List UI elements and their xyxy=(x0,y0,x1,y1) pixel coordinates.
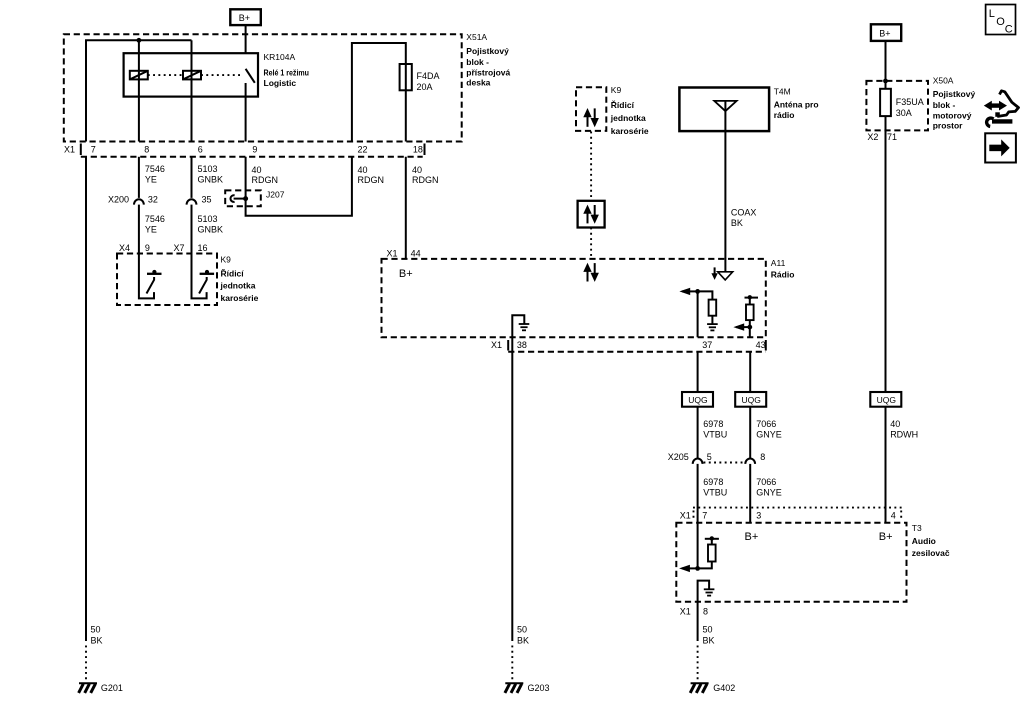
svg-text:50: 50 xyxy=(91,625,101,635)
svg-text:UQG: UQG xyxy=(742,395,761,405)
harness code UQG box 2 xyxy=(735,392,766,407)
svg-text:50: 50 xyxy=(703,625,713,635)
wire pin38 to ground G203 xyxy=(511,337,513,641)
antenna input down arrow xyxy=(711,267,717,280)
svg-text:8: 8 xyxy=(703,607,708,617)
svg-text:BK: BK xyxy=(731,218,743,228)
svg-text:přístrojová: přístrojová xyxy=(466,68,510,78)
svg-text:RDGN: RDGN xyxy=(358,175,385,185)
antenna T4M xyxy=(679,87,818,132)
wire 6978 VTBU lower to T3 pin7 xyxy=(697,464,699,569)
svg-text:karosérie: karosérie xyxy=(221,293,259,303)
svg-text:44: 44 xyxy=(411,248,421,258)
svg-text:8: 8 xyxy=(144,145,149,155)
fuse block X51A box xyxy=(64,32,511,141)
svg-text:T3: T3 xyxy=(912,523,922,533)
fuse F4DA 20A xyxy=(400,64,440,92)
svg-text:F4DA: F4DA xyxy=(417,71,440,81)
BCM K9 box lower-left xyxy=(117,254,259,306)
serial data arrows in K9 xyxy=(583,108,599,127)
svg-text:7066: 7066 xyxy=(756,477,776,487)
svg-text:X1: X1 xyxy=(680,607,691,617)
wire 40 RDWH to T3 pin4 xyxy=(885,407,887,524)
LOC legend box xyxy=(986,5,1016,36)
hand navigation icon xyxy=(984,91,1019,127)
fuse block X50A box xyxy=(866,76,975,131)
wire pin37 to UQG xyxy=(697,352,699,459)
connector X200 pin 35 xyxy=(187,194,212,204)
svg-text:A11: A11 xyxy=(771,258,786,268)
svg-text:X2: X2 xyxy=(867,132,878,142)
svg-text:35: 35 xyxy=(202,194,212,204)
svg-text:jednotka: jednotka xyxy=(220,281,256,291)
svg-text:UQG: UQG xyxy=(688,395,707,405)
svg-text:Řídicí: Řídicí xyxy=(611,99,635,110)
svg-text:37: 37 xyxy=(702,340,712,350)
serial data arrows in radio xyxy=(583,263,599,282)
arrow direction box xyxy=(985,133,1016,162)
svg-text:7: 7 xyxy=(702,511,707,521)
node junction coil1 top xyxy=(137,38,142,43)
svg-text:prostor: prostor xyxy=(933,121,963,131)
svg-text:GNYE: GNYE xyxy=(756,487,782,497)
svg-text:B+: B+ xyxy=(879,531,893,543)
svg-text:Pojistkový: Pojistkový xyxy=(466,46,509,56)
svg-text:X1: X1 xyxy=(491,340,502,350)
K9 switch 1 xyxy=(139,254,162,299)
svg-text:5103: 5103 xyxy=(198,214,218,224)
radio internal pin 43: arrow and resistor to termination xyxy=(733,295,758,337)
svg-text:5103: 5103 xyxy=(198,164,218,174)
svg-text:GNBK: GNBK xyxy=(198,175,224,185)
connector X200 pin 32 xyxy=(108,194,158,204)
svg-text:7546: 7546 xyxy=(145,164,165,174)
node B+ feed (instrument panel) xyxy=(230,9,260,53)
svg-text:40: 40 xyxy=(252,165,262,175)
svg-text:6978: 6978 xyxy=(703,419,723,429)
svg-text:VTBU: VTBU xyxy=(703,487,727,497)
svg-text:jednotka: jednotka xyxy=(610,113,646,123)
svg-text:22: 22 xyxy=(358,145,368,155)
svg-text:T4M: T4M xyxy=(774,87,791,97)
relay coil 1 xyxy=(130,71,148,80)
relay coil 2 xyxy=(183,71,201,80)
svg-text:7: 7 xyxy=(91,145,96,155)
svg-text:zesilovač: zesilovač xyxy=(912,548,950,558)
svg-text:40: 40 xyxy=(890,419,900,429)
svg-text:RDGN: RDGN xyxy=(412,175,439,185)
svg-text:Anténa pro: Anténa pro xyxy=(774,99,819,109)
wire dotted to G201 xyxy=(85,646,87,681)
svg-text:UQG: UQG xyxy=(877,395,896,405)
svg-text:6978: 6978 xyxy=(703,477,723,487)
wire pin7 to ground G201 xyxy=(85,157,87,641)
svg-text:G402: G402 xyxy=(713,683,735,693)
splice J207 xyxy=(225,190,285,207)
svg-text:RDGN: RDGN xyxy=(252,175,279,185)
svg-text:20A: 20A xyxy=(417,82,433,92)
svg-text:X1: X1 xyxy=(64,145,75,155)
svg-text:J207: J207 xyxy=(266,190,285,200)
svg-text:32: 32 xyxy=(148,194,158,204)
wire COAX BK xyxy=(724,131,726,272)
svg-text:30A: 30A xyxy=(896,108,912,118)
svg-text:VTBU: VTBU xyxy=(703,430,727,440)
svg-text:COAX: COAX xyxy=(731,208,757,218)
harness code UQG box 3 xyxy=(870,392,901,407)
audio amplifier T3 box xyxy=(676,523,950,602)
svg-text:X7: X7 xyxy=(174,243,185,253)
svg-text:8: 8 xyxy=(760,452,765,462)
serial data dotted line upper xyxy=(590,132,592,201)
wire dotted to G402 xyxy=(697,646,699,681)
svg-text:B+: B+ xyxy=(399,268,413,280)
T3 internal ground pin 8 xyxy=(698,581,715,602)
B+ box right xyxy=(871,24,901,41)
wire pin6 circuit 5103 GNBK upper xyxy=(191,157,193,198)
T3 connector strip X1 7/3/4 xyxy=(680,508,903,521)
wire pin18 40 RDGN to radio X1:44 xyxy=(405,157,407,260)
wire relay switch to pin 9 xyxy=(245,83,247,142)
svg-text:Logistic: Logistic xyxy=(264,78,297,88)
svg-text:50: 50 xyxy=(517,625,527,635)
svg-text:Audio: Audio xyxy=(912,536,936,546)
B+ box top xyxy=(230,9,260,25)
svg-text:B+: B+ xyxy=(745,531,759,543)
radio connector strip X1 38/37/43 xyxy=(491,340,766,352)
svg-text:rádio: rádio xyxy=(774,110,795,120)
svg-text:5: 5 xyxy=(707,452,712,462)
svg-text:B+: B+ xyxy=(239,13,250,23)
wire pin43 to UQG xyxy=(749,352,751,459)
svg-text:motorový: motorový xyxy=(933,111,972,121)
wire T3 pin8 to ground G402 xyxy=(697,602,699,641)
svg-text:X4: X4 xyxy=(119,243,130,253)
svg-text:RDWH: RDWH xyxy=(890,430,918,440)
svg-text:GNYE: GNYE xyxy=(756,430,782,440)
wire B+ to relay switch xyxy=(245,25,247,53)
relay KR104A xyxy=(124,52,309,97)
svg-text:40: 40 xyxy=(358,165,368,175)
svg-text:X200: X200 xyxy=(108,194,129,204)
svg-text:YE: YE xyxy=(145,225,157,235)
harness code UQG box 1 xyxy=(682,392,713,407)
wire pin8 circuit 7546 YE upper xyxy=(138,157,140,198)
fuse F35UA 30A xyxy=(880,89,924,118)
wire tie coil tops to pin 7 xyxy=(86,40,192,141)
svg-text:X51A: X51A xyxy=(466,32,487,42)
svg-text:38: 38 xyxy=(517,340,527,350)
svg-text:7546: 7546 xyxy=(145,214,165,224)
wire 40 RDWH from X50A to UQG xyxy=(885,116,887,392)
svg-text:karosérie: karosérie xyxy=(611,126,649,136)
ground G402 xyxy=(690,683,708,693)
wire dotted to G203 xyxy=(511,646,513,681)
radio internal ground pin 38 xyxy=(512,315,529,337)
svg-text:L: L xyxy=(989,8,995,20)
svg-text:Pojistkový: Pojistkový xyxy=(933,89,976,99)
relay switch blade xyxy=(246,69,255,83)
svg-text:YE: YE xyxy=(145,175,157,185)
BCM K9 box top (serial data) xyxy=(576,85,649,136)
wire fuse bus pin 22 to pin 18 xyxy=(352,43,406,142)
svg-text:3: 3 xyxy=(756,511,761,521)
svg-text:deska: deska xyxy=(466,78,490,88)
svg-text:4: 4 xyxy=(891,511,896,521)
svg-text:blok -: blok - xyxy=(933,100,956,110)
svg-text:X1: X1 xyxy=(387,248,398,258)
svg-text:9: 9 xyxy=(145,243,150,253)
wire coil2 to pin 6 xyxy=(191,40,193,141)
svg-text:9: 9 xyxy=(252,145,257,155)
relay linkage dotted xyxy=(148,74,183,76)
svg-text:7066: 7066 xyxy=(756,419,776,429)
svg-text:16: 16 xyxy=(198,243,208,253)
svg-text:C: C xyxy=(1005,23,1013,35)
svg-text:BK: BK xyxy=(517,636,529,646)
radio internal pin 37: arrow and resistor to ground xyxy=(679,288,717,338)
wire B+ to fuse block X50A xyxy=(885,41,887,89)
svg-text:X50A: X50A xyxy=(933,76,954,86)
svg-text:Řídicí: Řídicí xyxy=(221,268,245,279)
svg-text:B+: B+ xyxy=(879,29,890,39)
svg-text:71: 71 xyxy=(887,132,897,142)
wire pin9 circuit 40 RDGN down and over to pin22 xyxy=(246,157,352,216)
svg-text:K9: K9 xyxy=(221,255,232,265)
wire 7546 YE lower xyxy=(138,205,140,254)
serial data dotted line lower xyxy=(590,228,592,259)
ground G203 xyxy=(505,683,523,693)
svg-text:43: 43 xyxy=(756,340,766,350)
connector strip X1 of X51A xyxy=(64,144,425,157)
svg-text:blok -: blok - xyxy=(466,57,489,67)
antenna receptacle triangle xyxy=(718,272,733,280)
wire 5103 GNBK lower xyxy=(191,205,193,254)
svg-text:Rádio: Rádio xyxy=(771,270,795,280)
svg-text:KR104A: KR104A xyxy=(264,52,296,62)
svg-text:18: 18 xyxy=(413,145,423,155)
svg-text:6: 6 xyxy=(198,145,203,155)
wire 7066 GNYE lower to T3 pin3 xyxy=(749,464,751,524)
serial data gateway box xyxy=(578,201,605,228)
ground G201 xyxy=(79,683,97,693)
svg-text:G203: G203 xyxy=(528,683,550,693)
svg-text:BK: BK xyxy=(703,636,715,646)
svg-text:K9: K9 xyxy=(611,85,622,95)
svg-text:GNBK: GNBK xyxy=(198,225,224,235)
svg-text:40: 40 xyxy=(412,165,422,175)
svg-text:BK: BK xyxy=(91,636,103,646)
T3 internal pin 7: arrow and resistor to termination xyxy=(679,536,719,572)
svg-text:Relé 1 režimu: Relé 1 režimu xyxy=(264,68,310,78)
radio A11 box xyxy=(382,258,795,337)
svg-text:X205: X205 xyxy=(668,452,689,462)
svg-text:G201: G201 xyxy=(101,683,123,693)
wire coil1 to pin 8 xyxy=(138,40,140,141)
K9 switch 2 xyxy=(192,254,215,299)
connector X205 pins 5 and 8 xyxy=(668,452,765,464)
svg-text:X1: X1 xyxy=(680,511,691,521)
svg-text:F35UA: F35UA xyxy=(896,97,924,107)
